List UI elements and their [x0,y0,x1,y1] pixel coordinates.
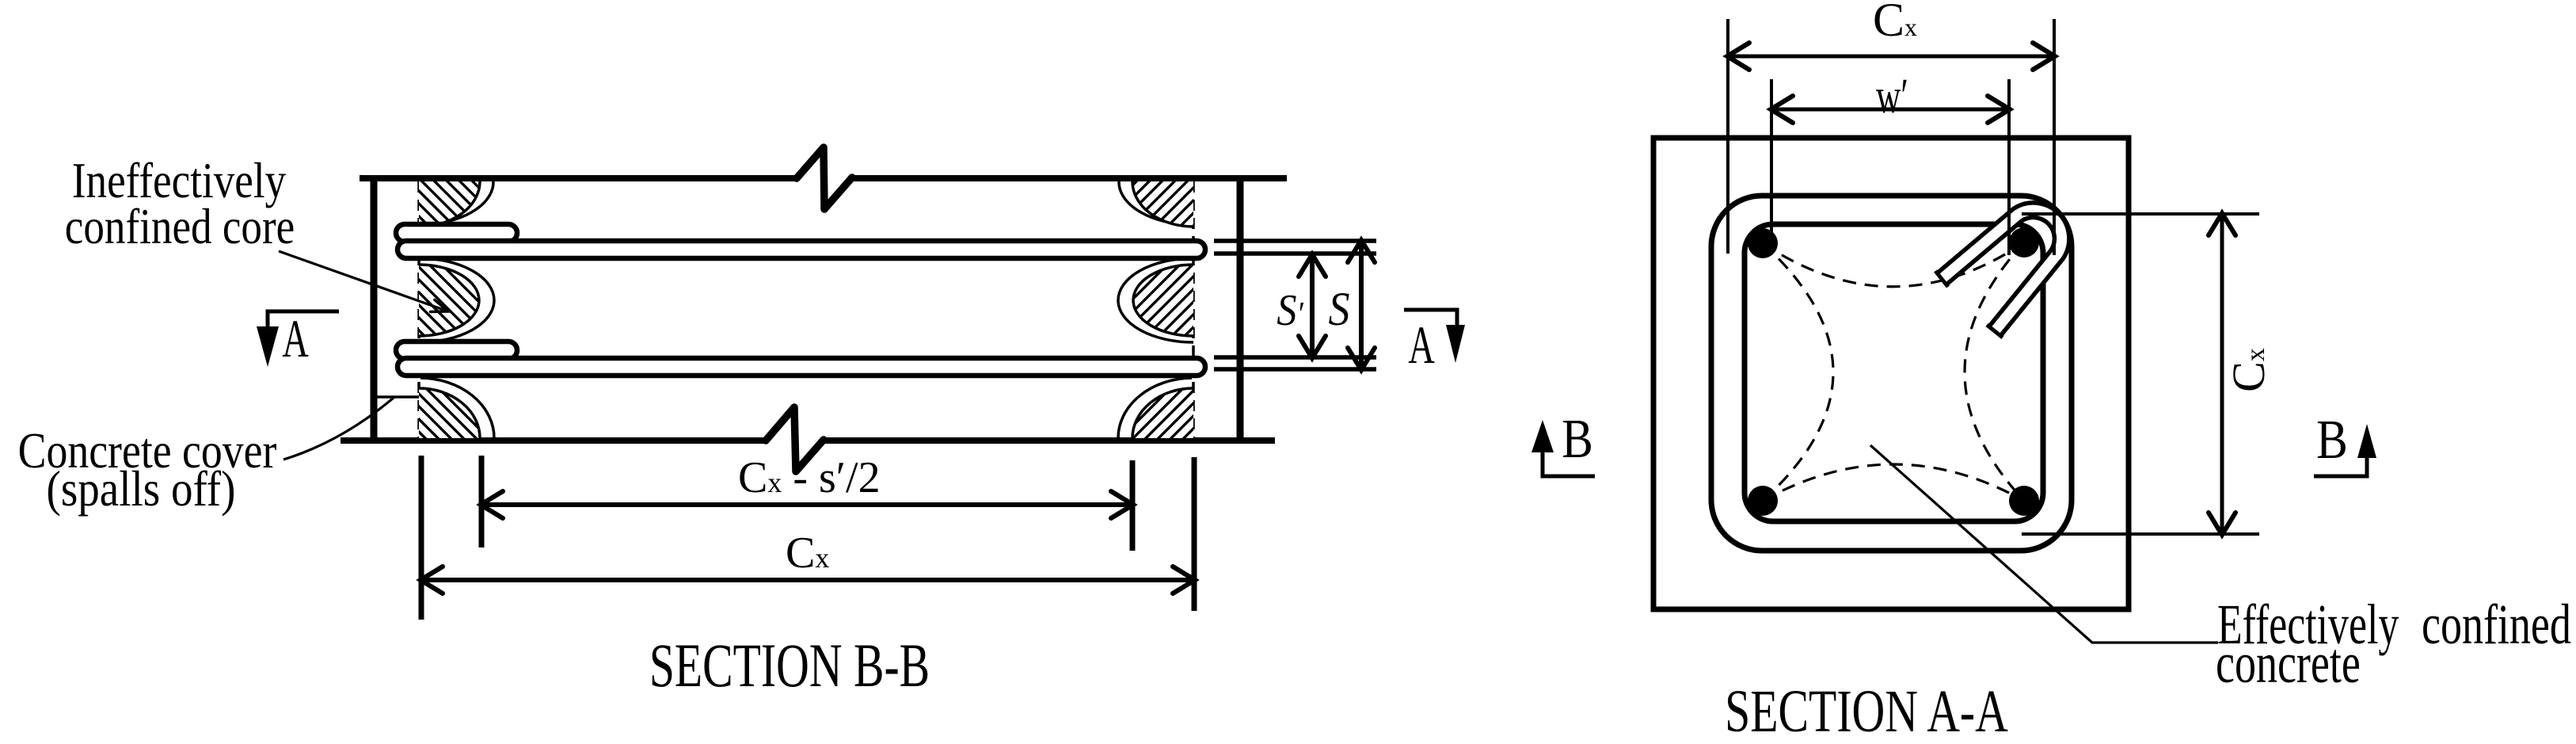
extension line w' right [2007,79,2011,255]
left column face [371,175,378,444]
column outline (cover) [1653,138,2129,609]
bottom-left arching: hatched core arc [419,388,480,438]
top-right arching: hatched core fill [1132,181,1193,227]
top edge break symbol [797,147,852,209]
middle-left arching: hatched core fill [419,265,479,336]
dimension Cx (top) [1728,55,2054,59]
extension line Cx top-right [2053,19,2056,255]
svg-text:SECTION B-B: SECTION B-B [649,631,930,700]
cover spall wedge line [375,395,419,399]
bottom-left arching: hatched core fill [419,388,480,438]
bottom-right arching: hatched core fill [1132,388,1193,438]
right spalling boundary (dashed) [1192,181,1195,437]
crosstie hook [1935,210,2062,338]
section cut marker B (right) [2314,410,2376,476]
extension line Cx left [419,456,424,620]
middle-left arching: hatched core arc [419,265,479,336]
top-left arching: outer arc [431,181,493,224]
confined boundary dashed arch left [1763,243,1833,501]
extension line Cx-s'/2 right [1130,460,1136,551]
svg-text:(spalls off): (spalls off) [47,460,236,517]
svg-text:A: A [1408,315,1434,375]
top edge left segment [360,175,797,181]
dimension w' [1771,108,2009,112]
svg-text:SECTION A-A: SECTION A-A [1725,677,2008,744]
section cut marker A (right) [1404,310,1465,375]
svg-text:confined core: confined core [65,198,295,254]
dimension Cx (right) [2220,214,2224,534]
leader: effectively confined concrete [1870,445,2218,643]
svg-text:S′: S′ [1277,286,1304,335]
bottom-right arching: hatched core arc [1132,388,1193,438]
section cut marker B (left) [1532,409,1595,476]
svg-text:Cx - s′/2: Cx - s′/2 [738,453,881,502]
middle-right arching: hatched core fill [1133,265,1193,336]
longitudinal bar upper (long) [398,241,1205,258]
extension line lower bar bottom [1214,367,1376,372]
svg-text:S: S [1329,283,1350,335]
top-right arching: outer arc [1119,181,1181,224]
corner bar top-left [1748,228,1778,258]
extension line Cx right [1192,457,1197,611]
extension line upper bar bottom [1214,251,1376,256]
section cut marker A (left) [257,308,339,368]
svg-text:A: A [282,308,308,368]
extension line upper bar top [1214,238,1376,243]
bottom-left arching: outer arc [420,378,494,438]
top-left arching: hatched core arc [419,181,480,227]
confined boundary dashed arch right [1965,242,2024,501]
svg-text:concrete: concrete [2216,631,2361,695]
bottom edge left segment [341,437,766,444]
svg-text:confined: confined [2422,593,2571,656]
right column face [1237,175,1244,442]
top-left arching: hatched core fill [419,181,480,227]
leader: concrete cover [283,398,394,460]
confined boundary dashed arch bottom [1763,464,2024,501]
longitudinal bar lower (long) [398,358,1205,376]
hoop bar upper (short) [396,224,517,242]
hoop bar lower (short) [396,341,517,359]
top-right arching: hatched core arc [1132,181,1193,227]
svg-text:Cx: Cx [2223,348,2274,392]
extension line w' left [1770,79,1773,254]
middle-left arching: outer arc [419,258,494,342]
corner bar bottom-left [1748,486,1778,516]
right dimension extension lines [2022,212,2259,216]
hoop outer outline [1711,196,2072,551]
bottom edge break symbol [766,407,824,471]
dimension S' [1310,255,1315,357]
corner bar bottom-right [2009,486,2039,516]
svg-text:B: B [2316,410,2348,471]
svg-text:Cx: Cx [786,528,829,578]
middle-right arching: outer arc [1118,258,1193,342]
svg-text:Cx: Cx [1873,0,1917,46]
left spalling boundary (dashed) [417,181,420,437]
corner bar top-right [2009,227,2039,258]
confined boundary dashed arch top [1763,242,2024,287]
svg-text:w′: w′ [1876,68,1908,124]
svg-text:B: B [1562,409,1593,471]
extension line lower bar top [1214,355,1376,360]
dimension Cx - s'/2 [481,502,1132,507]
bottom-right arching: outer arc [1118,378,1192,438]
bottom edge right segment [823,437,1275,444]
dimension S [1359,241,1364,369]
top edge right segment [851,175,1287,181]
extension line Cx top-left [1726,19,1729,254]
leader: ineffectively confined core [279,251,448,311]
extension line Cx-s'/2 left [479,456,485,548]
middle-right arching: hatched core arc [1133,265,1193,336]
dimension Cx (bottom) [421,578,1194,582]
hoop inner outline [1745,224,2043,521]
